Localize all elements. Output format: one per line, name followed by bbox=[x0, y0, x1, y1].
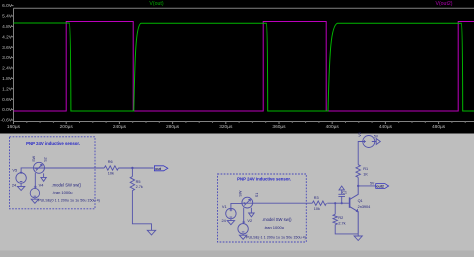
x axis minor ticks bbox=[27, 122, 465, 124]
wire R2 to emitter rail bbox=[335, 225, 358, 234]
svg-text:PNP 24V inductive sensor.: PNP 24V inductive sensor. bbox=[237, 176, 291, 181]
junction node R2 bbox=[334, 202, 336, 204]
svg-text:C1: C1 bbox=[342, 191, 347, 195]
svg-text:.tran 1000u: .tran 1000u bbox=[52, 190, 72, 195]
svg-text:V4: V4 bbox=[39, 183, 45, 188]
resistor R6 bbox=[104, 166, 118, 170]
transistor Q1 bbox=[350, 186, 359, 234]
svg-text:.tran 1000u: .tran 1000u bbox=[264, 225, 284, 230]
svg-text:R1: R1 bbox=[363, 167, 368, 171]
svg-text:1.8V: 1.8V bbox=[2, 76, 13, 82]
svg-text:480µs: 480µs bbox=[432, 124, 446, 130]
wire node to R5 bbox=[131, 168, 133, 177]
svg-text:R6: R6 bbox=[108, 160, 113, 164]
junction node out bbox=[131, 167, 133, 169]
svg-text:360µs: 360µs bbox=[272, 124, 286, 130]
svg-text:240µs: 240µs bbox=[113, 124, 127, 130]
switch S1 bbox=[242, 197, 253, 208]
port flag out bbox=[154, 166, 167, 171]
time axis labels bbox=[7, 124, 446, 130]
svg-text:5V: 5V bbox=[374, 135, 379, 139]
svg-text:3.6V: 3.6V bbox=[2, 45, 13, 51]
wire out2 node to R1 bbox=[357, 177, 359, 186]
svg-text:V3: V3 bbox=[358, 132, 362, 137]
svg-text:2n3904: 2n3904 bbox=[358, 205, 371, 209]
resistor R2 bbox=[333, 214, 337, 224]
junction node out2 bbox=[357, 185, 359, 187]
svg-text:S2: S2 bbox=[44, 157, 48, 162]
svg-text:6.0V: 6.0V bbox=[2, 3, 13, 9]
wire V5 to switch S2 bbox=[21, 168, 33, 173]
svg-text:200µs: 200µs bbox=[60, 124, 74, 130]
wire node to R2 bbox=[334, 203, 336, 214]
wire switch S2 to V4 bbox=[34, 173, 36, 189]
resistor R1 bbox=[356, 165, 360, 178]
svg-text:10k: 10k bbox=[314, 207, 320, 211]
trace V(out) green bbox=[14, 23, 474, 111]
svg-text:SW: SW bbox=[32, 155, 36, 161]
status bar strip bbox=[0, 251, 474, 257]
wire R6 to out flag bbox=[118, 167, 153, 169]
svg-text:R3: R3 bbox=[314, 196, 319, 200]
wire R3 to Q1 base bbox=[327, 202, 349, 204]
schematic background bbox=[0, 134, 474, 257]
svg-text:.model SW sw(): .model SW sw() bbox=[52, 182, 82, 187]
svg-text:2.4V: 2.4V bbox=[2, 66, 13, 72]
voltage source V2 bbox=[238, 221, 248, 234]
svg-text:4.2V: 4.2V bbox=[2, 34, 13, 40]
wire switch S1 to V2 bbox=[243, 208, 245, 224]
svg-text:Q1: Q1 bbox=[358, 199, 363, 203]
ground stub at switch S1 bbox=[249, 208, 255, 217]
svg-text:160µs: 160µs bbox=[7, 124, 21, 130]
ground stub at switch S2 bbox=[41, 173, 46, 181]
svg-text:S1: S1 bbox=[255, 193, 259, 198]
plot pane border bbox=[14, 8, 474, 121]
svg-text:V1: V1 bbox=[222, 204, 227, 209]
wire R1 to V3 bbox=[358, 142, 363, 165]
ground block 1 output bbox=[147, 230, 155, 235]
svg-text:out2: out2 bbox=[376, 185, 384, 189]
voltage source V4 bbox=[30, 186, 39, 198]
svg-text:280µs: 280µs bbox=[166, 124, 180, 130]
sensor block 1 dashed box bbox=[10, 137, 96, 209]
svg-text:0.0V: 0.0V bbox=[2, 107, 13, 113]
junction node C1 bbox=[341, 202, 343, 204]
inverted ground above C1 bbox=[339, 186, 344, 190]
port flag out2 bbox=[376, 184, 389, 189]
svg-text:400µs: 400µs bbox=[326, 124, 340, 130]
ground at Q1 emitter bbox=[354, 234, 362, 241]
voltage source V3 bbox=[363, 136, 375, 148]
voltage source V1 bbox=[226, 208, 236, 218]
svg-text:.model SW sw(): .model SW sw() bbox=[262, 217, 292, 222]
svg-text:320µs: 320µs bbox=[219, 124, 233, 130]
svg-text:V2: V2 bbox=[247, 218, 252, 223]
resistor R3 bbox=[312, 201, 326, 205]
svg-text:PULSE(0 1 1 200u 1u 1u 50u 150: PULSE(0 1 1 200u 1u 1u 50u 150u 4) bbox=[38, 198, 100, 202]
ground under V1 bbox=[227, 219, 234, 225]
svg-text:1K: 1K bbox=[363, 173, 368, 177]
svg-text:PULSE(-1 1 200u 1u 1u 50u 150u: PULSE(-1 1 200u 1u 1u 50u 150u 4) bbox=[246, 235, 306, 239]
capacitor C1 bbox=[338, 190, 345, 203]
svg-text:2.7k: 2.7k bbox=[338, 221, 345, 225]
svg-text:1.2V: 1.2V bbox=[2, 86, 13, 92]
wire switch S2 to R6 bbox=[45, 167, 105, 169]
y axis labels bbox=[1, 3, 13, 123]
wire R5 to ground bbox=[132, 191, 151, 231]
ground right of V3 bbox=[375, 139, 381, 145]
ground under V2 bbox=[239, 234, 246, 239]
x axis major ticks bbox=[14, 122, 439, 125]
svg-text:0.6V: 0.6V bbox=[2, 97, 13, 103]
svg-text:-0.6V: -0.6V bbox=[1, 118, 13, 124]
ground under V5 bbox=[17, 183, 24, 190]
svg-text:V(out2): V(out2) bbox=[435, 1, 452, 7]
ground under V4 bbox=[31, 198, 38, 204]
y axis ticks bbox=[11, 6, 14, 120]
svg-text:4.8V: 4.8V bbox=[2, 24, 13, 30]
svg-text:5V: 5V bbox=[370, 182, 375, 186]
svg-text:R2: R2 bbox=[338, 216, 343, 220]
resistor R5 bbox=[130, 177, 134, 191]
waveform pane background bbox=[0, 0, 474, 134]
svg-text:SW: SW bbox=[239, 190, 243, 196]
svg-text:2.7k: 2.7k bbox=[136, 185, 143, 189]
sensor block 2 dashed box bbox=[218, 174, 307, 242]
voltage source V5 bbox=[16, 171, 26, 183]
svg-text:out: out bbox=[155, 167, 162, 171]
svg-text:V5: V5 bbox=[12, 168, 17, 173]
svg-text:440µs: 440µs bbox=[379, 124, 393, 130]
wire node to out2 flag bbox=[358, 185, 376, 187]
svg-text:PNP 24V inductive sensor.: PNP 24V inductive sensor. bbox=[26, 141, 80, 146]
wire V1 to switch S1 bbox=[231, 203, 242, 208]
switch S2 bbox=[34, 162, 45, 173]
wire switch S1 to R3 bbox=[253, 202, 313, 204]
svg-text:R5: R5 bbox=[136, 180, 141, 184]
svg-text:10k: 10k bbox=[108, 171, 114, 175]
svg-text:5.4V: 5.4V bbox=[2, 14, 13, 20]
svg-text:3.0V: 3.0V bbox=[2, 55, 13, 61]
svg-text:V(out): V(out) bbox=[149, 1, 163, 7]
trace V(out2) magenta bbox=[14, 22, 474, 112]
